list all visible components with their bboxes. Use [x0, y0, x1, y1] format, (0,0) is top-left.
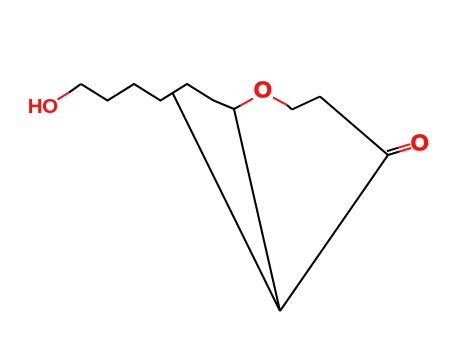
bond C7 to ether O red half [241, 99, 254, 106]
long bond B1 [173, 93, 280, 311]
bond O-C1 red half [58, 93, 70, 100]
bond O-C1 black half [69, 84, 81, 93]
bond ether O to C8 red half [273, 98, 287, 106]
svg-text:HO: HO [28, 95, 58, 118]
carbonyl C=O line 1 black half [388, 152, 400, 156]
svg-text:O: O [254, 76, 272, 102]
long bond B3 carbonyl C to BV [280, 155, 388, 311]
chain C8-C9 up [292, 97, 320, 110]
chain C9 to carbonyl C long bond [320, 97, 388, 156]
chain C1..C7 [81, 84, 234, 109]
svg-text:O: O [411, 130, 429, 156]
bond C7 to ether O black half [234, 106, 241, 110]
carbonyl C=O line 2 black half [387, 148, 399, 152]
carbonyl C=O line 2 red half [398, 144, 410, 148]
long bond B2 C7 to BV [234, 109, 280, 311]
bond ether O to C8 black half [287, 105, 292, 110]
carbonyl C=O line 1 red half [400, 148, 412, 152]
